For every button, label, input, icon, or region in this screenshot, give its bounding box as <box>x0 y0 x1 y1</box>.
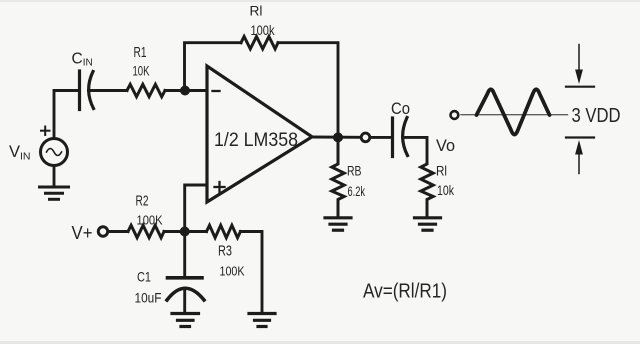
arrow lower (amplitude marker) <box>566 138 594 174</box>
wire: C1 to ground <box>183 288 186 312</box>
svg-text:10uF: 10uF <box>135 290 162 306</box>
terminal (open circle at output) <box>361 133 370 142</box>
resistor R3 <box>207 225 241 237</box>
svg-text:100k: 100k <box>251 22 276 38</box>
ground (under C1) <box>172 314 199 327</box>
ground (under RB) <box>325 218 351 230</box>
svg-text:100K: 100K <box>220 265 246 279</box>
capacitor Co <box>393 118 408 157</box>
wire: Vin source top to Cin <box>54 91 80 138</box>
svg-text:10K: 10K <box>133 63 150 79</box>
resistor Rl feedback <box>241 37 278 49</box>
svg-text:Vo: Vo <box>436 137 455 155</box>
svg-text:C1: C1 <box>137 269 151 285</box>
arrow upper (amplitude marker) <box>566 45 594 87</box>
wire: feedback left vertical <box>185 43 242 91</box>
wire: feedback right down to output node <box>278 43 338 138</box>
capacitor C1 <box>167 278 204 300</box>
waveform sine <box>477 89 550 134</box>
svg-text:RB: RB <box>347 163 362 179</box>
wire: node B down to C1 <box>183 232 186 277</box>
svg-text:Co: Co <box>391 100 410 118</box>
ground (under VIN) <box>40 187 69 199</box>
capacitor CIN <box>80 71 94 110</box>
axis origin o <box>451 111 459 119</box>
resistor Rl load <box>421 163 433 217</box>
svg-text:6.2k: 6.2k <box>348 183 366 199</box>
svg-text:1/2 LM358: 1/2 LM358 <box>214 130 298 151</box>
wire: R1 to node A <box>165 89 207 92</box>
op-amp U1 <box>207 66 312 202</box>
wire: R2 to node B <box>164 230 207 233</box>
svg-text:R1: R1 <box>134 45 147 61</box>
svg-text:Rl: Rl <box>250 3 263 19</box>
minus sign (inverting input) <box>213 90 220 92</box>
wire: Cin to R1 <box>89 89 128 92</box>
node A (inverting input junction) <box>180 86 190 96</box>
svg-text:R2: R2 <box>136 194 149 210</box>
svg-text:3 VDD: 3 VDD <box>572 105 621 127</box>
svg-text:V+: V+ <box>72 223 93 243</box>
resistor RB <box>332 142 344 217</box>
svg-text:Rl: Rl <box>436 163 447 179</box>
node C (output junction) <box>333 132 343 142</box>
wire: op-amp output to open terminal <box>312 136 361 139</box>
wire: R3 right then down to ground <box>241 232 263 312</box>
plus sign (non-inverting input) <box>215 182 225 192</box>
wire: V+ to R2 <box>109 230 128 233</box>
terminal V+ circle <box>98 227 107 236</box>
wire: noninverting input to node B <box>185 185 207 232</box>
plus sign at source <box>41 127 50 136</box>
resistor R1 <box>127 84 165 96</box>
svg-text:Av=(Rl/R1): Av=(Rl/R1) <box>363 281 447 303</box>
ground (under Rl load) <box>415 218 441 230</box>
svg-text:100K: 100K <box>137 213 164 227</box>
source VIN <box>41 139 68 166</box>
wire: Co to load Rl <box>403 137 428 163</box>
waveform axis line <box>461 114 568 116</box>
svg-text:R3: R3 <box>218 244 232 260</box>
wire: Vin source bottom <box>53 166 56 187</box>
resistor R2 <box>128 225 164 237</box>
svg-text:10k: 10k <box>437 182 455 198</box>
wire: terminal to Co <box>371 136 393 139</box>
node B (bias junction) <box>180 227 190 237</box>
ground (under R3) <box>249 314 275 327</box>
